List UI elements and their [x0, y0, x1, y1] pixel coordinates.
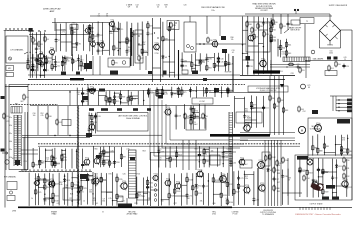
junction — [103, 161, 104, 162]
transistor VT16 — [243, 123, 251, 132]
svg-text:C49: C49 — [225, 198, 228, 200]
screened lead — [178, 50, 180, 80]
junction — [313, 186, 314, 187]
transistor VT4 — [98, 41, 104, 49]
resistor R59 — [119, 93, 125, 100]
dark bus segment — [70, 78, 84, 80]
wire — [195, 140, 197, 170]
transistor VT25 — [174, 181, 181, 190]
junction — [38, 30, 39, 31]
svg-text:12k: 12k — [231, 39, 234, 41]
svg-text:R114: R114 — [306, 178, 310, 180]
wire — [195, 53, 197, 72]
block C21 — [222, 49, 227, 53]
record/play head connector — [4, 30, 30, 31]
connector ring — [154, 189, 157, 192]
wire — [27, 55, 29, 71]
electrolytic capacitor C34 — [181, 63, 188, 68]
resistor R127 — [37, 175, 44, 182]
wire — [114, 147, 116, 168]
svg-text:R109: R109 — [324, 192, 328, 194]
svg-text:C41: C41 — [56, 203, 59, 205]
wire — [207, 173, 209, 206]
wire — [235, 97, 245, 99]
svg-text:C76: C76 — [205, 186, 208, 188]
svg-text:R8: R8 — [73, 32, 75, 34]
svg-text:R96: R96 — [54, 158, 57, 160]
resistor R70 — [156, 90, 162, 97]
wire — [186, 173, 188, 205]
wire — [226, 173, 228, 205]
wire — [71, 54, 73, 71]
wire — [64, 174, 66, 205]
erase head EH — [5, 160, 9, 164]
svg-text:VT11: VT11 — [261, 59, 265, 61]
svg-text:W10: W10 — [116, 162, 120, 164]
junction — [69, 135, 70, 136]
svg-text:UP: UP — [128, 7, 131, 9]
wire — [333, 185, 347, 187]
svg-text:C63: C63 — [201, 155, 204, 157]
svg-text:C35: C35 — [220, 61, 223, 63]
wire — [336, 106, 347, 108]
wire — [157, 92, 163, 94]
wire — [162, 22, 164, 77]
wire — [283, 76, 285, 135]
resistor R31 — [280, 23, 286, 30]
wire — [145, 56, 147, 70]
wire channel bottom left — [150, 152, 152, 206]
capacitor C30 — [287, 22, 293, 27]
screened cable A — [130, 28, 132, 66]
wire — [31, 33, 33, 78]
wire — [193, 116, 199, 118]
svg-text:C49: C49 — [193, 118, 196, 120]
junction — [214, 92, 215, 93]
wire — [30, 36, 32, 38]
resistor R84 — [298, 106, 304, 113]
svg-text:W14: W14 — [198, 185, 202, 187]
junction — [120, 102, 121, 103]
junction — [119, 48, 120, 49]
svg-text:R142: R142 — [272, 157, 276, 159]
connector loop — [13, 28, 15, 30]
wire — [336, 103, 347, 105]
transistor VT22 — [120, 181, 128, 190]
capacitor C80 — [281, 174, 287, 179]
wire — [207, 57, 215, 59]
svg-text:S2: S2 — [12, 158, 14, 160]
wire — [177, 87, 179, 98]
svg-text:R87: R87 — [349, 151, 352, 153]
resistor R141 — [220, 175, 227, 182]
junction — [76, 151, 77, 152]
wire — [72, 177, 78, 179]
wire — [242, 17, 244, 76]
wire — [81, 180, 88, 182]
connector ring — [154, 194, 157, 197]
connector loop — [49, 170, 51, 172]
wire — [88, 112, 90, 133]
resistor R90 — [340, 145, 346, 152]
svg-text:0.1: 0.1 — [96, 203, 98, 205]
wire — [138, 44, 142, 46]
block C29 — [214, 88, 219, 92]
resistor R55 — [3, 113, 9, 120]
wire — [244, 97, 246, 127]
capacitor C32 — [181, 58, 187, 63]
resistor R58 — [130, 95, 136, 102]
wire — [270, 66, 310, 68]
wire — [203, 148, 205, 168]
wire staircase 1 — [150, 88, 232, 160]
svg-text:R54: R54 — [26, 97, 29, 99]
resistor R97 — [120, 153, 126, 160]
resistor R16 — [27, 63, 33, 70]
svg-text:R120: R120 — [89, 176, 93, 178]
wire — [233, 171, 235, 205]
resistor R82 — [278, 97, 284, 104]
svg-text:R97: R97 — [123, 157, 126, 159]
svg-text:VT16: VT16 — [245, 123, 249, 125]
svg-text:VT25: VT25 — [176, 181, 180, 183]
svg-text:0.1: 0.1 — [232, 52, 234, 54]
box head record — [108, 58, 130, 67]
electrolytic capacitor C64 — [321, 170, 328, 175]
screened bus cable 2 — [38, 143, 300, 145]
resistor R55 — [299, 67, 305, 74]
resistor R72 — [147, 89, 153, 96]
svg-text:1k: 1k — [31, 198, 33, 200]
svg-text:10k: 10k — [77, 94, 80, 96]
svg-text:C11: C11 — [57, 65, 60, 67]
svg-text:P C59: P C59 — [233, 214, 238, 216]
junction — [119, 42, 120, 43]
wire — [76, 23, 78, 51]
wire — [69, 91, 71, 106]
capacitor C56 — [53, 161, 59, 166]
capacitor C15 — [45, 60, 51, 65]
svg-text:ALC: ALC — [194, 123, 198, 126]
wire — [251, 95, 253, 128]
svg-text:R66: R66 — [194, 149, 197, 151]
svg-text:C16: C16 — [35, 67, 38, 69]
block C32 — [158, 95, 163, 99]
capacitor C31 — [227, 61, 233, 66]
svg-text:C74: C74 — [150, 187, 153, 189]
box link — [262, 152, 270, 166]
junction — [112, 200, 113, 201]
wire — [101, 22, 103, 55]
wire — [199, 53, 201, 71]
wire — [204, 105, 206, 129]
wire — [243, 171, 245, 206]
wire — [278, 46, 281, 48]
resistor R102 — [175, 151, 182, 158]
junction — [30, 52, 31, 53]
wire — [30, 69, 36, 71]
wire — [79, 187, 82, 189]
wire — [269, 76, 271, 135]
svg-text:C48: C48 — [178, 116, 181, 118]
junction — [113, 31, 114, 32]
wire top-left rail — [52, 22, 110, 24]
svg-text:R15: R15 — [74, 61, 77, 63]
wire — [114, 30, 119, 32]
wire — [46, 160, 53, 162]
connector loop — [37, 170, 39, 172]
wire — [28, 173, 30, 206]
block C37 — [130, 157, 135, 161]
diode W7 — [227, 90, 233, 94]
wire box cap bottom — [153, 67, 161, 69]
svg-text:R80: R80 — [186, 198, 189, 200]
resistor R89 — [323, 143, 329, 150]
svg-text:C18: C18 — [40, 62, 43, 64]
diode W13 — [63, 178, 70, 182]
wire — [99, 147, 101, 167]
svg-text:R31: R31 — [283, 26, 286, 28]
electrolytic capacitor C35 — [217, 59, 224, 64]
svg-text:R134: R134 — [189, 180, 193, 182]
resistor R149 — [265, 155, 272, 162]
wire — [245, 119, 257, 121]
svg-text:R89: R89 — [277, 191, 280, 193]
wire — [52, 156, 55, 158]
resistor R50 — [335, 61, 341, 68]
resistor R23 — [147, 22, 153, 29]
wire — [336, 144, 342, 146]
contact b — [191, 47, 194, 50]
wire — [245, 121, 252, 123]
wire — [160, 173, 162, 206]
resistor R31 — [253, 33, 259, 40]
wire — [243, 52, 248, 54]
wire — [32, 43, 40, 45]
svg-text:R26: R26 — [173, 25, 176, 27]
wire — [45, 148, 47, 168]
wire — [214, 65, 225, 67]
block D2 — [334, 57, 338, 60]
wire — [257, 17, 259, 75]
capacitor C33 — [224, 62, 230, 67]
junction — [142, 52, 143, 53]
wire — [89, 24, 91, 51]
wire — [270, 140, 272, 206]
resistor R17 — [131, 31, 137, 38]
wire — [305, 60, 352, 62]
resistor R138 — [195, 190, 202, 197]
wire — [78, 65, 86, 67]
connector loop — [73, 170, 75, 172]
svg-text:C13: C13 — [30, 61, 33, 63]
junction — [175, 22, 176, 23]
svg-text:C57: C57 — [277, 182, 280, 184]
wire — [312, 136, 314, 156]
junction — [242, 53, 243, 54]
block C43 — [80, 174, 88, 179]
resistor R145 — [273, 167, 280, 174]
svg-text:R95: R95 — [63, 157, 66, 159]
svg-text:R75: R75 — [195, 111, 198, 113]
resistor R125 — [35, 189, 42, 196]
resistor R18 — [126, 37, 132, 44]
capacitor C58 — [102, 150, 108, 155]
svg-text:VT27a: VT27a — [259, 160, 264, 162]
svg-text:R57: R57 — [116, 101, 119, 103]
wire — [213, 181, 227, 183]
svg-text:40: 40 — [136, 7, 138, 9]
resistor R94 — [54, 160, 60, 167]
svg-text:R73: R73 — [180, 90, 183, 92]
wire — [47, 106, 49, 135]
diode W3 — [97, 41, 103, 45]
wire — [336, 99, 347, 101]
svg-text:6.8k: 6.8k — [59, 184, 62, 186]
wire — [114, 92, 116, 106]
connector plug PL1 — [29, 28, 33, 32]
svg-text:10k: 10k — [211, 151, 214, 153]
connector loop — [21, 170, 23, 172]
wire — [126, 22, 128, 57]
wire — [95, 113, 97, 134]
junction — [71, 43, 72, 44]
label block — [297, 156, 308, 160]
connector loop — [77, 170, 79, 172]
dark block row above box C — [89, 108, 94, 111]
svg-text:R/H CHANNEL: R/H CHANNEL — [4, 176, 16, 179]
resistor R126 — [44, 184, 51, 191]
svg-text:C32: C32 — [184, 61, 187, 63]
block C28b — [99, 89, 105, 92]
wire — [76, 149, 78, 169]
box L/H channel input — [6, 36, 28, 63]
svg-text:C70: C70 — [47, 199, 50, 201]
svg-text:R105: R105 — [206, 161, 210, 163]
electrolytic capacitor C68 — [317, 167, 324, 172]
junction — [199, 43, 201, 45]
svg-text:R25: R25 — [115, 62, 118, 64]
svg-text:R88: R88 — [277, 173, 280, 175]
resistor R114 — [303, 175, 310, 182]
label box voltages note — [248, 86, 288, 92]
wire — [137, 23, 139, 56]
wire — [175, 106, 177, 130]
resistor R5 — [41, 61, 46, 68]
electrolytic capacitor C72 — [86, 178, 93, 183]
wire — [71, 172, 73, 206]
svg-text:R82: R82 — [281, 100, 284, 102]
svg-text:R128: R128 — [74, 185, 78, 187]
svg-text:R36: R36 — [249, 24, 252, 26]
resistor R27 — [138, 55, 144, 62]
svg-text:C15: C15 — [48, 63, 51, 65]
svg-text:R34: R34 — [273, 37, 276, 39]
wire — [335, 135, 337, 156]
wire — [87, 174, 89, 205]
resistor R9 — [89, 28, 94, 35]
wire — [270, 18, 272, 74]
svg-text:R106: R106 — [309, 172, 313, 174]
block C20 — [221, 36, 226, 40]
wire — [253, 171, 255, 205]
wire — [243, 59, 255, 61]
wire — [67, 106, 69, 135]
svg-text:VT4: VT4 — [100, 41, 103, 43]
svg-text:R126: R126 — [46, 187, 50, 189]
svg-text:0.22: 0.22 — [158, 149, 161, 151]
svg-text:W1: W1 — [79, 44, 82, 46]
svg-text:VT22: VT22 — [122, 181, 126, 183]
wire — [192, 173, 194, 205]
wire — [217, 53, 219, 72]
svg-text:R42: R42 — [282, 48, 285, 50]
wire staircase 6 — [170, 108, 248, 140]
wire — [228, 54, 230, 71]
capacitor C60 — [230, 160, 236, 165]
svg-text:R30: R30 — [275, 22, 278, 24]
svg-text:R13: R13 — [54, 67, 57, 69]
wire — [168, 22, 170, 78]
transistor VT16 — [93, 156, 100, 165]
capacitor C67 — [345, 185, 351, 190]
svg-text:VT10: VT10 — [154, 42, 158, 44]
wire — [258, 29, 267, 31]
electrolytic capacitor C74 — [146, 185, 153, 190]
svg-text:R88: R88 — [319, 150, 322, 152]
connector loop — [53, 170, 55, 172]
resistor R73 — [177, 87, 183, 94]
wire — [38, 145, 300, 147]
svg-text:VT9: VT9 — [249, 33, 252, 35]
wire — [120, 90, 122, 105]
wire — [71, 24, 73, 51]
tall module box R-channel amp — [129, 150, 137, 198]
capacitor C12 — [54, 60, 60, 65]
svg-text:AMP: AMP — [50, 10, 55, 13]
svg-text:R52: R52 — [41, 113, 44, 115]
wire — [64, 56, 66, 71]
connector loop — [57, 170, 59, 172]
wire — [100, 159, 109, 161]
wire — [280, 140, 282, 206]
wire — [195, 86, 197, 98]
svg-text:R130: R130 — [138, 196, 142, 198]
wire — [225, 52, 227, 71]
capacitor C49 — [190, 116, 196, 121]
wire — [87, 87, 89, 105]
wire — [50, 198, 53, 200]
svg-text:R41: R41 — [59, 122, 62, 124]
wire — [318, 176, 323, 178]
wire — [29, 34, 90, 36]
wire — [30, 105, 230, 107]
diode W11 — [335, 164, 341, 168]
svg-text:W13: W13 — [66, 180, 70, 182]
svg-text:RLA: RLA — [70, 193, 74, 196]
decoupling block row above bus — [61, 72, 66, 76]
svg-text:VT17: VT17 — [240, 157, 244, 159]
diode W6 — [189, 88, 195, 92]
capacitor C5 — [35, 58, 41, 63]
wire — [103, 147, 105, 167]
svg-text:R91: R91 — [35, 165, 38, 167]
resistor R95 — [61, 154, 67, 161]
wire — [120, 147, 122, 167]
wire — [282, 170, 284, 205]
wire — [208, 147, 210, 168]
resistor R79 — [250, 101, 256, 108]
